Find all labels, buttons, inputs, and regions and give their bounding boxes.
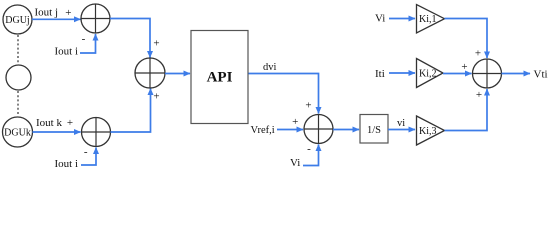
svg-text:+: + <box>67 117 73 129</box>
svg-text:+: + <box>153 38 159 50</box>
svg-text:+: + <box>65 7 71 19</box>
svg-text:+: + <box>475 48 481 60</box>
wire Ki,1 output to S5 top <box>445 19 488 59</box>
svg-text:+: + <box>476 89 482 101</box>
wire Ki,2 output to S5 left <box>443 73 472 75</box>
svg-text:DGUk: DGUk <box>4 128 31 139</box>
wire vi : 1/S output to gain Ki,3 <box>388 129 415 131</box>
dotted line middle DGU to DGUk <box>17 91 19 116</box>
wire S1 output to S3 top <box>110 19 150 58</box>
svg-text:Ki,1: Ki,1 <box>419 14 437 25</box>
svg-text:Iti: Iti <box>375 68 385 80</box>
wire S4 output to integrator block <box>333 129 359 131</box>
summing junction S3 <box>135 58 165 88</box>
dotted line DGUj to middle DGU <box>17 35 19 64</box>
svg-text:+: + <box>461 61 467 73</box>
svg-text:Iout j: Iout j <box>35 7 59 19</box>
svg-text:Iout i: Iout i <box>55 158 79 170</box>
wire Vi to gain Ki,1 <box>389 18 415 20</box>
wire Ki,3 output to S5 bottom <box>445 89 488 131</box>
svg-text:+: + <box>292 116 298 128</box>
DGU unit DGUj <box>3 5 32 34</box>
svg-text:+: + <box>305 100 311 112</box>
wire S5 output Vti <box>502 73 531 75</box>
svg-text:dvi: dvi <box>263 62 277 73</box>
svg-text:DGUj: DGUj <box>5 15 29 26</box>
svg-text:Iout k: Iout k <box>36 117 62 129</box>
svg-text:-: - <box>307 143 311 155</box>
gain Ki,2 <box>417 59 444 88</box>
svg-text:Ki,2: Ki,2 <box>419 68 437 79</box>
wire Vref,i to S4 left <box>277 129 303 131</box>
wire S2 output to S3 bottom <box>111 89 151 133</box>
svg-text:Iout i: Iout i <box>55 46 79 58</box>
gain Ki,1 <box>417 5 445 34</box>
svg-text:Vi: Vi <box>290 157 300 169</box>
wire Iti to gain Ki,2 <box>389 72 415 74</box>
wire Iout i into S1 bottom <box>80 34 96 53</box>
summing junction S4 <box>304 115 333 144</box>
svg-text:Vi: Vi <box>375 13 385 25</box>
wire Iout j : DGUj to summing junction S1 <box>32 18 81 20</box>
DGU middle circle (ellipsis unit) <box>6 65 31 90</box>
svg-text:vi: vi <box>397 118 405 129</box>
svg-text:Vref,i: Vref,i <box>251 125 275 136</box>
svg-text:-: - <box>84 146 88 158</box>
block 1/S integrator <box>360 115 388 144</box>
wire Vi into S4 bottom <box>303 145 319 166</box>
svg-text:+: + <box>153 91 159 103</box>
summing junction S1 <box>81 4 110 33</box>
wire dvi : API output to S4 top <box>249 74 319 114</box>
DGU unit DGUk <box>3 117 33 147</box>
summing junction S5 <box>473 59 502 88</box>
svg-text:1/S: 1/S <box>367 125 381 136</box>
block API <box>191 31 248 124</box>
svg-text:Vti: Vti <box>534 69 548 81</box>
wire Iout i into S2 bottom <box>81 148 96 166</box>
svg-text:Ki,3: Ki,3 <box>419 126 437 137</box>
gain Ki,3 <box>417 116 445 145</box>
wire Iout k : DGUk to summing junction S2 <box>33 131 81 133</box>
svg-text:-: - <box>82 33 86 45</box>
summing junction S2 <box>82 118 111 147</box>
wire S3 output to API block <box>165 73 190 75</box>
svg-text:API: API <box>207 70 233 86</box>
